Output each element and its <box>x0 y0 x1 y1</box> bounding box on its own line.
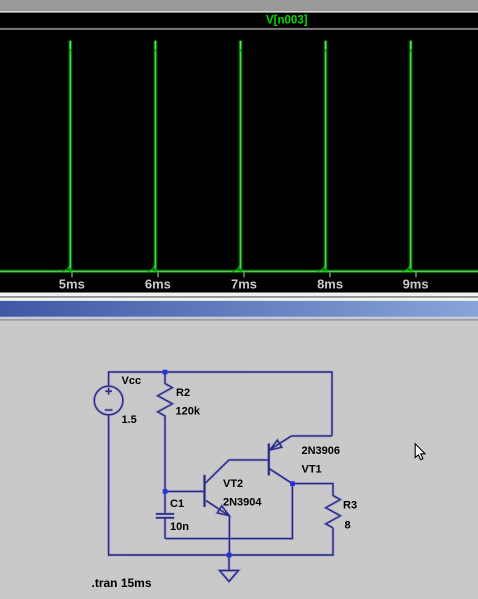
trace spike at 6ms <box>147 41 155 272</box>
wire C1 bottom to VT1 collector node <box>165 484 292 539</box>
separator line under trace label band <box>0 28 478 30</box>
trace spike at 9ms <box>402 41 411 272</box>
wire halo (soft glow duplicate of schematic strokes) <box>94 372 340 582</box>
x-axis labels <box>59 277 429 292</box>
schematic pane background <box>0 321 478 599</box>
transistor VT2 emitter diagonal <box>206 501 230 516</box>
svg-text:R2: R2 <box>176 387 190 399</box>
plus sign of Vcc <box>108 388 110 395</box>
node R2 top junction dot <box>163 370 168 375</box>
svg-text:6ms: 6ms <box>145 277 171 292</box>
svg-text:R3: R3 <box>343 500 357 512</box>
svg-text:7ms: 7ms <box>231 277 257 292</box>
svg-text:120k: 120k <box>176 406 201 418</box>
svg-text:C1: C1 <box>170 498 184 510</box>
wire Vcc bottom lead down to ground rail, right to R3 bottom <box>109 415 333 555</box>
trace spike at 8ms <box>317 41 325 272</box>
svg-text:8: 8 <box>345 520 351 532</box>
ground stub <box>228 555 230 571</box>
svg-text:9ms: 9ms <box>403 277 429 292</box>
wire VT2 emitter to ground rail <box>228 516 230 555</box>
trace spike at 5ms <box>62 41 70 272</box>
node ground junction dot <box>227 553 232 558</box>
wire VT1 collector node to R3 top <box>292 484 333 496</box>
capacitor C1 bottom lead <box>164 518 166 539</box>
wire Vcc top to top rail to right rail down to VT1 emitter <box>109 372 332 436</box>
wire VT2 base to node <box>165 490 204 492</box>
waveform pane background <box>0 0 478 293</box>
wire VT2 collector to VT1 base <box>229 459 268 461</box>
resistor R3 zigzag <box>326 495 341 528</box>
svg-text:10n: 10n <box>170 521 189 533</box>
transistor VT2 collector diagonal <box>205 460 229 483</box>
svg-text:Vcc: Vcc <box>122 375 142 387</box>
resistor R2 zigzag with leads <box>158 372 173 491</box>
ground symbol triangle <box>220 571 239 582</box>
separator stack below plot <box>0 293 478 297</box>
trace glow halo <box>0 41 478 272</box>
transistor Q2/VT2 base bar <box>204 475 206 507</box>
blue splitter / title bar <box>0 301 478 317</box>
trace spike at 7ms <box>232 41 240 272</box>
capacitor C1 plates <box>156 513 174 515</box>
transistor Q1/VT1 base bar <box>268 444 270 476</box>
node VT1 collector / R3 junction dot <box>290 481 295 486</box>
svg-text:VT2: VT2 <box>223 478 243 490</box>
svg-text:1.5: 1.5 <box>122 414 137 426</box>
capacitor C1 top lead <box>164 491 166 513</box>
top gray strip <box>0 0 478 11</box>
svg-text:8ms: 8ms <box>317 277 343 292</box>
transistor VT1 emitter diagonal <box>269 436 292 450</box>
minus sign of Vcc <box>105 409 113 411</box>
trace baseline V(n003)=0 <box>0 270 478 272</box>
svg-text:VT1: VT1 <box>302 464 322 476</box>
mouse cursor <box>415 444 425 460</box>
svg-text:V[n003]: V[n003] <box>266 15 308 27</box>
svg-text:5ms: 5ms <box>59 277 85 292</box>
transistor VT1 collector diagonal <box>269 468 293 483</box>
transistor VT2 emitter arrow <box>217 506 229 516</box>
transistor VT1 emitter arrow (PNP) <box>270 440 282 450</box>
voltage source Vcc circle <box>94 386 123 415</box>
svg-text:2N3904: 2N3904 <box>223 497 262 509</box>
node VT2 base / R2 / C1 junction dot <box>163 489 168 494</box>
svg-text:2N3906: 2N3906 <box>302 445 341 457</box>
svg-text:.tran 15ms: .tran 15ms <box>92 576 152 590</box>
wire VT1 emitter corner to right rail <box>292 435 332 437</box>
x-axis tick marks <box>72 272 416 277</box>
